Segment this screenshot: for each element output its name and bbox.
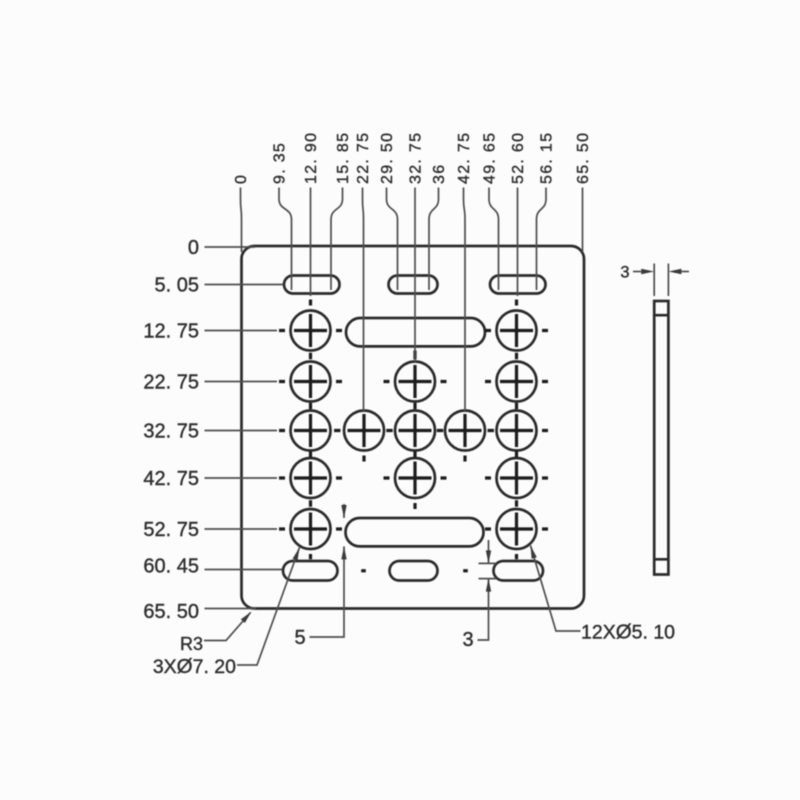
- svg-text:42. 75: 42. 75: [456, 132, 473, 184]
- bottom slot right: [494, 561, 544, 581]
- hole row3 col5: [497, 411, 537, 451]
- svg-text:0: 0: [188, 237, 199, 259]
- svg-text:22. 75: 22. 75: [355, 132, 372, 184]
- dimension 5 lower arrow: [310, 546, 345, 637]
- leader line 32.75: [414, 188, 416, 363]
- hole row1 col5: [497, 311, 537, 351]
- hole row5 col5: [497, 509, 537, 549]
- top slot left: [284, 276, 340, 294]
- bottom slot middle: [390, 561, 438, 581]
- top slot right: [490, 276, 546, 294]
- leader line 9.35: [279, 188, 292, 291]
- leader line 52.60: [517, 188, 519, 297]
- svg-text:49. 65: 49. 65: [482, 132, 499, 184]
- hole row4 col5: [497, 458, 537, 498]
- leader line 65.50: [582, 188, 584, 253]
- leader line 29.50: [387, 188, 398, 291]
- svg-text:12. 75: 12. 75: [143, 321, 199, 343]
- svg-text:12XØ5. 10: 12XØ5. 10: [581, 621, 675, 644]
- hole row2 col1: [291, 362, 331, 402]
- left leader 22.75: [205, 381, 278, 383]
- long slot upper: [346, 318, 485, 346]
- side view extension lines: [654, 264, 668, 297]
- hole row2 col5: [497, 362, 537, 402]
- leader line 56.15: [537, 188, 547, 291]
- side dimension 3 left arrow: [633, 271, 641, 273]
- centerline dashes: [279, 300, 548, 571]
- hole row3 col3: [395, 411, 435, 451]
- callout leader 3x dia 7.20: [237, 548, 300, 666]
- svg-text:65. 50: 65. 50: [575, 132, 592, 184]
- dimension 5 upper arrow: [343, 504, 345, 518]
- side view plate outline: [654, 301, 668, 575]
- long slot lower: [346, 518, 484, 546]
- dimension 3 extension ticks: [479, 563, 497, 578]
- svg-text:5. 05: 5. 05: [155, 275, 199, 297]
- top slot middle: [389, 276, 438, 294]
- svg-text:65. 50: 65. 50: [143, 601, 199, 623]
- leader line 42.75: [464, 188, 466, 412]
- callout leader 12x dia 5.10: [531, 546, 581, 632]
- hole row4 col1: [291, 458, 331, 498]
- svg-text:R3: R3: [180, 634, 203, 654]
- svg-text:56. 15: 56. 15: [539, 132, 556, 184]
- leader line 15.85: [331, 188, 343, 291]
- svg-text:36: 36: [431, 164, 448, 184]
- left leader 60.45: [205, 569, 283, 571]
- svg-text:52. 75: 52. 75: [143, 519, 199, 541]
- side dimension 3 right arrow: [681, 271, 689, 273]
- svg-text:12. 90: 12. 90: [303, 132, 320, 184]
- leader line 36: [429, 188, 439, 291]
- hole row4 col3: [395, 458, 435, 498]
- svg-text:15. 85: 15. 85: [335, 132, 352, 184]
- hole row3 col4: [445, 411, 485, 451]
- svg-text:32. 75: 32. 75: [143, 421, 199, 443]
- svg-text:3: 3: [462, 629, 473, 651]
- hole row5 col1: [291, 509, 331, 549]
- svg-text:60. 45: 60. 45: [143, 556, 199, 578]
- svg-text:3: 3: [620, 264, 629, 282]
- svg-text:3XØ7. 20: 3XØ7. 20: [153, 655, 236, 678]
- left leader 0: [205, 246, 256, 248]
- svg-text:0: 0: [233, 174, 250, 184]
- hole row1 col1: [291, 311, 331, 351]
- svg-text:32. 75: 32. 75: [408, 132, 425, 184]
- left leader 5.05: [205, 284, 284, 286]
- bottom slot left: [283, 561, 338, 581]
- dimension 3 upper arrow: [488, 540, 490, 563]
- svg-text:42. 75: 42. 75: [143, 468, 199, 490]
- hole row3 col1: [291, 411, 331, 451]
- hole row3 col2: [344, 411, 384, 451]
- left leader 65.50: [205, 608, 257, 610]
- leader line 12.90: [310, 188, 312, 297]
- svg-text:52. 60: 52. 60: [510, 132, 527, 184]
- side view tab lines: [654, 315, 668, 559]
- leader line 49.65: [489, 188, 499, 291]
- leader line 0: [241, 188, 242, 253]
- leader line 22.75: [363, 188, 364, 412]
- left leader 42.75: [205, 477, 278, 479]
- radius leader R3: [204, 613, 251, 641]
- svg-text:5: 5: [294, 627, 305, 649]
- left leader 52.75: [205, 528, 278, 530]
- plate front view outline: [242, 246, 585, 609]
- svg-text:22. 75: 22. 75: [143, 372, 199, 394]
- dimension 3 lower arrow: [478, 579, 489, 640]
- hole row2 col3: [395, 362, 435, 402]
- svg-text:29. 50: 29. 50: [379, 132, 396, 184]
- left leader 32.75: [205, 430, 278, 432]
- left leader 12.75: [205, 330, 278, 332]
- svg-text:9. 35: 9. 35: [272, 142, 289, 184]
